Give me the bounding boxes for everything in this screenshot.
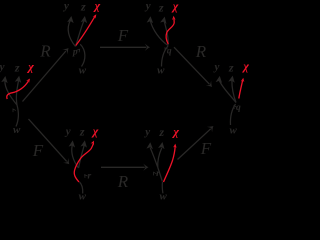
svg-text:χ: χ: [91, 124, 99, 138]
svg-text:y: y: [143, 126, 150, 138]
svg-text:R: R: [39, 42, 51, 61]
svg-text:χ: χ: [241, 59, 249, 73]
svg-text:R: R: [117, 172, 129, 191]
svg-text:χ: χ: [93, 0, 101, 13]
svg-text:F: F: [32, 141, 44, 160]
svg-text:w: w: [160, 190, 168, 202]
svg-text:z: z: [158, 0, 164, 14]
svg-text:y: y: [62, 0, 69, 12]
svg-text:y: y: [212, 61, 219, 73]
svg-text:w: w: [13, 124, 21, 136]
svg-text:R: R: [195, 42, 207, 61]
svg-text:z: z: [14, 60, 20, 74]
svg-text:w: w: [79, 65, 87, 77]
svg-text:z: z: [228, 60, 234, 74]
svg-text:q: q: [167, 46, 172, 56]
svg-text:y: y: [144, 0, 151, 12]
svg-text:w: w: [230, 125, 238, 137]
svg-text:r: r: [88, 172, 92, 182]
svg-text:χ: χ: [26, 59, 34, 73]
svg-text:p: p: [72, 48, 78, 58]
svg-text:q: q: [236, 103, 241, 113]
svg-text:χ: χ: [171, 124, 179, 138]
svg-text:y: y: [64, 125, 71, 137]
svg-text:y: y: [0, 61, 5, 73]
svg-text:χ: χ: [171, 0, 179, 13]
svg-text:z: z: [158, 125, 164, 139]
svg-text:z: z: [80, 0, 86, 14]
svg-text:F: F: [200, 139, 212, 158]
svg-text:z: z: [79, 125, 85, 139]
svg-text:F: F: [117, 26, 129, 45]
